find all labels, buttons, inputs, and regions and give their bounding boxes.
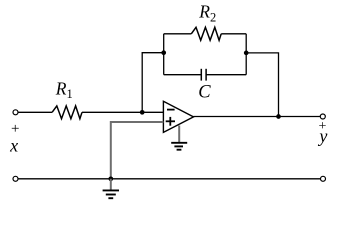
ground (bottom rail) stem xyxy=(110,179,112,190)
svg-text:R2: R2 xyxy=(198,2,216,25)
svg-text:y: y xyxy=(317,126,327,146)
node A junction dot (feedback tap on inverting input wire) xyxy=(140,110,145,115)
capacitor C (left plate) xyxy=(200,69,202,81)
output terminal (node y+) xyxy=(320,114,325,119)
resistor R1 xyxy=(52,106,82,119)
input terminal (top-left, node x+) xyxy=(13,110,18,115)
ground (bottom rail) bars xyxy=(103,190,119,198)
op-amp inverting input marker (minus) xyxy=(167,109,175,111)
wire: right node of block to output junction xyxy=(246,53,278,117)
node C junction dot (right node of R2/C parallel block) xyxy=(244,51,249,56)
wire: input terminal to R1 left lead xyxy=(18,111,52,113)
wire: R2 to right vertical of parallel block xyxy=(221,33,246,35)
svg-text:R1: R1 xyxy=(55,78,73,101)
wire: capacitor to right vertical of parallel block xyxy=(206,74,246,76)
wire: left vertical of parallel block xyxy=(163,34,165,75)
wire: top branch left lead to R2 xyxy=(164,33,192,35)
svg-text:+: + xyxy=(11,121,19,137)
capacitor C (right plate) xyxy=(205,69,207,81)
wire: R1 to op-amp inverting input xyxy=(82,111,163,113)
wire: op-amp output to output terminal xyxy=(194,116,321,118)
node D junction dot (feedback joins output wire) xyxy=(276,114,281,119)
svg-text:x: x xyxy=(9,136,18,156)
op-amp U1 xyxy=(163,101,193,132)
ground (below op-amp) stem xyxy=(178,126,180,143)
wire: non-inverting input to bottom rail xyxy=(111,122,164,179)
wire: bottom branch left lead to capacitor xyxy=(164,74,202,76)
wire: bottom rail xyxy=(18,178,320,180)
op-amp non-inverting input marker (plus) xyxy=(166,117,175,126)
bottom-left terminal (node x-) xyxy=(13,176,18,181)
ground (below op-amp) bars xyxy=(171,143,187,150)
resistor R2 xyxy=(191,27,221,40)
node E junction dot (ground tap on bottom rail) xyxy=(108,176,113,181)
wire: node A up to feedback network xyxy=(142,53,164,113)
svg-text:C: C xyxy=(198,82,211,102)
wire: right vertical of parallel block xyxy=(245,34,247,75)
node B junction dot (left node of R2/C parallel block) xyxy=(161,50,166,55)
bottom-right terminal (node y-) xyxy=(321,176,326,181)
